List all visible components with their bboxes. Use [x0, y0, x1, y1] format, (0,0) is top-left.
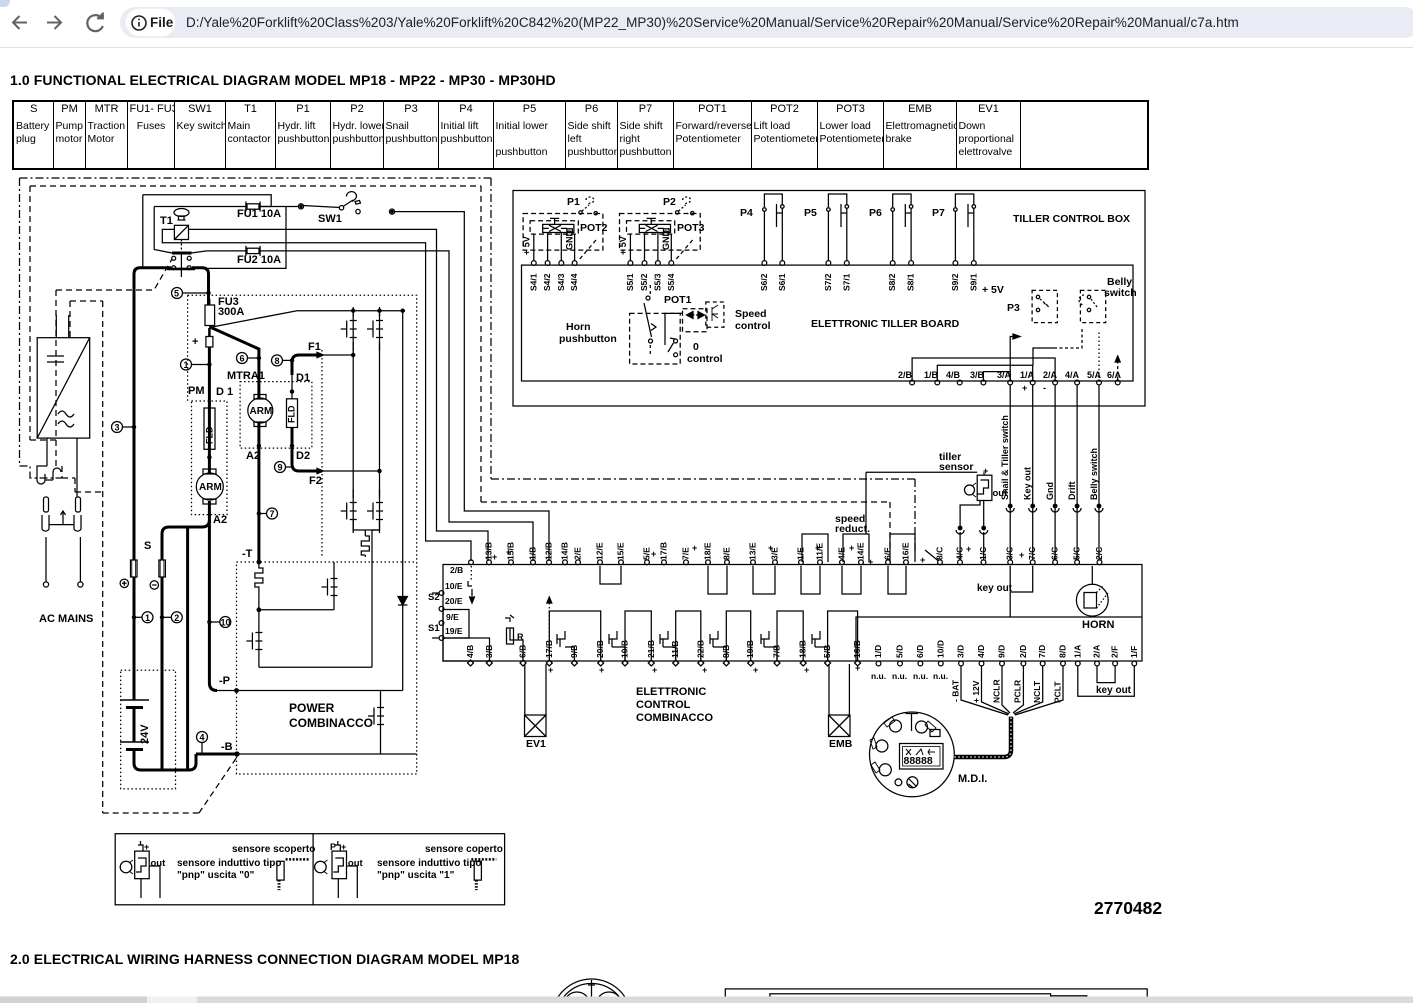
key out bracket bottom right	[1078, 666, 1135, 697]
tiller control box	[513, 191, 1145, 407]
svg-text:3/B: 3/B	[970, 370, 985, 380]
svg-text:ELETTRONIC TILLER BOARD: ELETTRONIC TILLER BOARD	[811, 318, 960, 330]
svg-text:P6: P6	[869, 207, 882, 219]
bottom partial diagram wheel	[552, 979, 632, 1003]
mosfet Q7	[368, 694, 384, 738]
svg-text:4/D: 4/D	[976, 645, 986, 658]
svg-text:7: 7	[270, 509, 275, 519]
svg-text:12/E: 12/E	[595, 542, 605, 560]
svg-text:PCLT: PCLT	[1053, 681, 1063, 703]
svg-text:P1: P1	[567, 196, 580, 208]
svg-text:D 1: D 1	[216, 386, 233, 398]
svg-text:+: +	[1022, 383, 1027, 393]
svg-text:switch: switch	[1104, 287, 1137, 299]
svg-text:+: +	[849, 543, 854, 553]
wire S2 S1 stubs	[432, 593, 439, 638]
svg-text:6/D: 6/D	[915, 645, 925, 658]
upper mosfet pair Q1 Q2	[341, 307, 357, 351]
svg-text:NCLR: NCLR	[992, 679, 1002, 703]
plus marks top row	[492, 543, 1024, 567]
svg-text:20/E: 20/E	[445, 596, 463, 606]
svg-text:FU1 10A: FU1 10A	[237, 208, 281, 220]
svg-text:-P: -P	[219, 675, 230, 687]
T1 aux dashed link	[56, 259, 172, 290]
svg-text:5/D: 5/D	[895, 645, 905, 658]
tiller board internal risers	[912, 358, 1055, 380]
solenoid valve EV1	[525, 715, 547, 737]
diode D3	[398, 597, 407, 606]
svg-text:S1: S1	[428, 623, 440, 634]
svg-text:M.D.I.: M.D.I.	[958, 773, 987, 785]
svg-text:COMBINACCO: COMBINACCO	[289, 716, 373, 730]
svg-text:S5/2: S5/2	[639, 273, 649, 291]
tiller board bottom terminals	[910, 380, 1120, 385]
wire F2 output	[290, 428, 381, 474]
battery plug fuse S+	[120, 560, 137, 700]
svg-text:10/D: 10/D	[935, 640, 945, 658]
P4 pushbutton	[740, 194, 787, 291]
svg-text:300A: 300A	[218, 306, 244, 318]
wire SW1 to board	[395, 212, 550, 561]
svg-text:9/D: 9/D	[997, 645, 1007, 658]
charger plug contacts	[37, 438, 83, 587]
net wires tiller to board	[1010, 385, 1099, 560]
svg-text:"pnp" uscita "1": "pnp" uscita "1"	[377, 870, 455, 881]
svg-text:ARM: ARM	[250, 406, 273, 417]
svg-text:S5/3: S5/3	[652, 273, 662, 291]
svg-text:n.u.: n.u.	[871, 671, 886, 681]
svg-text:+: +	[768, 543, 773, 553]
svg-text:+: +	[920, 555, 925, 565]
svg-text:+: +	[506, 547, 511, 557]
wire T1 top bus	[143, 195, 271, 207]
info icon in chip	[132, 16, 146, 30]
node circled 7	[257, 508, 277, 519]
P1 pushbutton group	[521, 196, 607, 291]
wire FU1 feed	[154, 207, 246, 254]
right sensor symbol	[315, 841, 364, 898]
wire FU3 to fet rail diagonal	[212, 311, 405, 327]
wire T1 coil left	[162, 229, 471, 561]
svg-text:sensore scoperto: sensore scoperto	[232, 844, 315, 855]
svg-text:POT1: POT1	[664, 294, 692, 306]
svg-text:17/B: 17/B	[659, 542, 669, 560]
6/A dashed with arrow	[1117, 358, 1119, 380]
wire to shunt	[353, 520, 379, 536]
svg-text:8/C: 8/C	[935, 547, 945, 560]
svg-text:+: +	[599, 665, 604, 675]
tiller board	[522, 265, 1134, 381]
battery 24V dotted box	[121, 670, 176, 789]
svg-text:2/A: 2/A	[1092, 645, 1102, 658]
svg-text:+: +	[983, 466, 988, 476]
svg-text:out: out	[348, 858, 364, 869]
svg-text:FU2 10A: FU2 10A	[237, 254, 281, 266]
svg-text:Gnd: Gnd	[1045, 482, 1055, 500]
wire T1 coil bypass	[143, 195, 286, 269]
svg-text:24V: 24V	[139, 724, 151, 744]
svg-text:sensor: sensor	[939, 461, 973, 473]
PM field winding FLD	[204, 408, 215, 459]
svg-text:4/E: 4/E	[837, 547, 847, 560]
svg-text:3/D: 3/D	[956, 645, 966, 658]
EV1 wires	[525, 664, 546, 715]
svg-text:SW1: SW1	[318, 213, 342, 225]
svg-text:1/F: 1/F	[1129, 646, 1139, 658]
wire -B rail	[196, 753, 237, 756]
svg-text:NCLT: NCLT	[1032, 680, 1042, 703]
fuse FU3	[205, 293, 215, 330]
fuse FU1	[246, 202, 260, 212]
MDI signal labels	[951, 679, 1063, 703]
svg-text:2/B: 2/B	[898, 370, 913, 380]
wire -P rail	[217, 690, 403, 692]
svg-text:2: 2	[174, 613, 179, 623]
shunt resistor lower	[255, 562, 263, 610]
svg-text:P5: P5	[804, 207, 817, 219]
browser toolbar	[0, 0, 1413, 48]
battery charger box	[37, 315, 89, 438]
EMB wires	[829, 664, 849, 715]
wire FU1 to SW1	[260, 206, 299, 208]
svg-text:4/B: 4/B	[946, 370, 961, 380]
POT1 group	[630, 294, 707, 364]
potentiometer POT2	[543, 224, 574, 232]
svg-text:sensore induttivo tipo: sensore induttivo tipo	[177, 858, 281, 869]
mosfet Q5	[322, 565, 338, 609]
svg-text:+: +	[804, 665, 809, 675]
inner partition box for D row	[856, 617, 1142, 661]
MTR dotted box	[240, 382, 312, 449]
svg-text:+ 5V: + 5V	[982, 284, 1004, 296]
MTR motor ARM	[248, 378, 273, 427]
svg-text:out: out	[151, 858, 167, 869]
svg-text:FLD: FLD	[287, 405, 297, 423]
svg-text:6/E: 6/E	[883, 547, 893, 560]
svg-text:8/E: 8/E	[722, 547, 732, 560]
svg-text:pushbutton: pushbutton	[559, 333, 617, 345]
svg-text:P4: P4	[740, 207, 753, 219]
svg-text:S7/2: S7/2	[823, 273, 833, 291]
svg-text:+: +	[966, 544, 971, 554]
wire F1 output	[292, 352, 353, 375]
board left side labels 10/E 20/E 9/E 19/E	[428, 581, 463, 636]
svg-text:8/D: 8/D	[1058, 645, 1068, 658]
svg-text:F1: F1	[308, 341, 321, 353]
svg-text:S4/4: S4/4	[569, 273, 579, 291]
svg-text:S7/1: S7/1	[842, 273, 852, 291]
svg-text:4/A: 4/A	[1065, 370, 1080, 380]
svg-text:FLD: FLD	[205, 426, 215, 444]
svg-text:8: 8	[275, 356, 280, 366]
svg-text:P3: P3	[1007, 302, 1020, 314]
wire dotted 5/A to belly switch	[1098, 330, 1100, 378]
wire -T dotted bus	[237, 561, 417, 563]
8/C wire diagonal	[925, 550, 939, 561]
node circled 1	[181, 359, 211, 370]
svg-text:ARM: ARM	[199, 482, 222, 493]
svg-text:+ 12V: + 12V	[971, 680, 981, 703]
P5 pushbutton	[804, 194, 852, 291]
forward arrow	[47, 16, 61, 29]
dotted line 17/B with arrow	[548, 603, 550, 660]
svg-text:-B: -B	[221, 741, 233, 753]
horn pushbutton contact	[559, 285, 653, 355]
svg-text:+: +	[692, 543, 697, 553]
MDI cable	[954, 717, 1011, 757]
node circled 5	[172, 288, 211, 299]
svg-text:D1: D1	[296, 372, 310, 384]
svg-text:n.u.: n.u.	[933, 671, 948, 681]
svg-text:GND: GND	[661, 230, 671, 251]
svg-text:14/E: 14/E	[856, 542, 866, 560]
svg-text:+ 5V: + 5V	[521, 236, 531, 255]
wire FU2 feed from contactor	[191, 251, 246, 253]
MDI instrument	[870, 712, 955, 797]
left sensor symbol	[120, 841, 166, 898]
svg-text:15/E: 15/E	[616, 542, 626, 560]
fuse FU2	[246, 246, 260, 256]
wire thick right PM feed	[192, 268, 209, 293]
wire Q5 source bus	[259, 609, 334, 611]
svg-text:Belly switch: Belly switch	[1089, 448, 1099, 500]
belly switch contact	[1079, 276, 1137, 323]
svg-text:1/E: 1/E	[796, 547, 806, 560]
node circled 9	[275, 462, 293, 473]
P7 pushbutton	[932, 194, 978, 291]
svg-text:-T: -T	[242, 548, 253, 560]
dotted power module frame	[188, 295, 417, 774]
svg-text:9/E: 9/E	[446, 612, 459, 622]
svg-text:1/B: 1/B	[528, 547, 538, 560]
svg-text:ELETTRONIC: ELETTRONIC	[636, 686, 706, 698]
svg-text:4: 4	[200, 733, 205, 743]
svg-text:10/E: 10/E	[445, 581, 463, 591]
svg-text:n.u.: n.u.	[913, 671, 928, 681]
svg-text:TILLER CONTROL BOX: TILLER CONTROL BOX	[1013, 213, 1130, 225]
svg-text:1/B: 1/B	[924, 370, 939, 380]
svg-text:S9/1: S9/1	[968, 273, 978, 291]
inner dashed frame	[30, 186, 890, 813]
svg-text:+: +	[192, 336, 198, 348]
svg-text:key out: key out	[977, 583, 1013, 594]
svg-text:POWER: POWER	[289, 701, 335, 715]
board left inner boxes	[443, 610, 469, 639]
svg-text:POT3: POT3	[677, 222, 705, 234]
svg-text:"pnp" uscita "0": "pnp" uscita "0"	[177, 870, 255, 881]
svg-text:4/B: 4/B	[465, 645, 475, 658]
svg-text:88888: 88888	[904, 755, 933, 767]
svg-text:2770482: 2770482	[1094, 898, 1162, 918]
svg-text:S8/1: S8/1	[906, 273, 916, 291]
svg-text:Drift: Drift	[1067, 482, 1077, 501]
svg-text:1: 1	[145, 613, 150, 623]
svg-text:+: +	[492, 552, 497, 562]
key switch SW1	[298, 192, 394, 225]
svg-text:S6/1: S6/1	[777, 273, 787, 291]
wire thick left battery feed	[134, 268, 171, 560]
svg-text:1/C: 1/C	[978, 547, 988, 560]
svg-text:S: S	[144, 540, 151, 552]
node circled 10	[208, 617, 231, 628]
svg-text:9: 9	[278, 463, 283, 473]
MTR field winding FLD	[287, 360, 298, 427]
svg-text:EV1: EV1	[526, 738, 546, 750]
svg-text:F2: F2	[309, 475, 322, 487]
svg-text:3/B: 3/B	[484, 645, 494, 658]
horn wire	[1091, 566, 1093, 585]
svg-text:Horn: Horn	[566, 321, 591, 333]
MDI fan-out wires	[961, 666, 1063, 716]
dotted line MTR sense	[321, 350, 323, 557]
shunt resistor	[361, 536, 369, 557]
svg-text:1/A: 1/A	[1072, 645, 1082, 658]
svg-text:+: +	[651, 549, 656, 559]
svg-text:GND: GND	[564, 230, 574, 251]
svg-text:CONTROL: CONTROL	[636, 699, 691, 711]
svg-text:1: 1	[184, 360, 189, 370]
wire fet rail taps	[353, 311, 403, 691]
wire FU3 to MTR thick diagonal	[210, 327, 259, 378]
svg-text:13/E: 13/E	[748, 542, 758, 560]
contactor T1 coil	[174, 209, 189, 253]
svg-text:key out: key out	[1096, 685, 1132, 696]
svg-text:+: +	[815, 543, 820, 553]
inductor L mark near 10/E	[468, 581, 472, 596]
svg-text:S2: S2	[428, 592, 440, 603]
svg-text:5/E: 5/E	[642, 547, 652, 560]
plus marks bottom row	[548, 663, 860, 675]
svg-text:+: +	[341, 842, 346, 852]
control board ELETTRONIC CONTROL COMBINACCO	[443, 565, 1142, 662]
wire PM branch plus fuse	[192, 328, 213, 473]
svg-text:10: 10	[221, 618, 231, 628]
svg-text:2/E: 2/E	[573, 547, 583, 560]
svg-text:P2: P2	[663, 196, 676, 208]
board bottom terminals	[468, 660, 1137, 666]
svg-text:PCLR: PCLR	[1012, 680, 1022, 703]
potentiometer POT3	[639, 224, 670, 232]
node -T junction	[257, 560, 261, 564]
tiller sensor	[866, 451, 1008, 560]
svg-text:6: 6	[240, 354, 245, 364]
board left terminals S2 S1	[439, 591, 444, 596]
svg-text:S9/2: S9/2	[950, 273, 960, 291]
svg-text:A2: A2	[213, 514, 227, 526]
wire PM return	[162, 520, 209, 560]
board top terminal labels	[450, 542, 1104, 575]
sensore legend box	[115, 834, 504, 905]
svg-text:n.u.: n.u.	[892, 671, 907, 681]
svg-text:5/A: 5/A	[1087, 370, 1102, 380]
svg-text:6/A: 6/A	[1107, 370, 1122, 380]
net labels	[1000, 415, 1099, 500]
node circled 1 battery	[132, 612, 153, 623]
svg-text:+: +	[855, 663, 860, 673]
legend table	[12, 100, 1149, 170]
svg-text:POT2: POT2	[580, 222, 608, 234]
key out bracket inside board	[1010, 566, 1032, 617]
svg-text:+: +	[652, 665, 657, 675]
bottom scrollbar band	[0, 997, 1413, 1003]
svg-text:12/B: 12/B	[544, 542, 554, 560]
svg-text:16/E: 16/E	[901, 542, 911, 560]
svg-text:S8/2: S8/2	[887, 273, 897, 291]
tiller board bottom labels	[898, 370, 1122, 380]
svg-text:S4/2: S4/2	[542, 273, 552, 291]
right target icon	[474, 861, 481, 880]
svg-text:P7: P7	[932, 207, 945, 219]
reload icon	[87, 15, 102, 31]
svg-text:S4/3: S4/3	[556, 273, 566, 291]
page heading 2	[10, 951, 519, 967]
node circled 3	[112, 422, 136, 433]
n.u. labels	[871, 671, 948, 681]
PM dotted box	[192, 401, 228, 515]
mosfet Q6	[246, 619, 262, 663]
svg-text:2/F: 2/F	[1110, 646, 1120, 658]
bottom partial diagram connector box	[725, 989, 1147, 1003]
node circled 8	[272, 355, 294, 366]
board bottom terminal labels	[465, 640, 1139, 658]
0 control contact	[668, 338, 723, 365]
contactor T1 main contacts	[167, 253, 195, 277]
svg-text:Speed: Speed	[735, 308, 767, 320]
horn	[1076, 584, 1108, 616]
svg-text:P: P	[330, 842, 336, 852]
svg-text:R: R	[517, 632, 524, 642]
svg-text:S5/1: S5/1	[625, 273, 635, 291]
wire PM column to -P rail	[209, 501, 217, 691]
svg-text:0: 0	[693, 341, 699, 353]
svg-text:control: control	[687, 353, 723, 365]
svg-text:+: +	[144, 842, 149, 852]
wire Q6 source to F2 column	[259, 530, 380, 667]
battery cells	[120, 700, 196, 770]
svg-text:D2: D2	[296, 450, 310, 462]
svg-text:sensore coperto: sensore coperto	[425, 844, 503, 855]
P2 pushbutton group	[618, 196, 705, 291]
PM motor ARM	[196, 469, 223, 504]
svg-text:19/E: 19/E	[445, 626, 463, 636]
wire half-bridge verticals	[353, 342, 379, 498]
svg-text:+ 5V: + 5V	[618, 236, 628, 255]
svg-text:- BAT: - BAT	[951, 679, 961, 702]
outer dash-dot frame	[20, 178, 916, 552]
P3 snail contact	[1007, 290, 1057, 322]
svg-text:2/D: 2/D	[1018, 645, 1028, 658]
left target icon	[277, 861, 284, 880]
svg-text:Key out: Key out	[1023, 467, 1033, 500]
svg-text:-: -	[1043, 383, 1046, 393]
svg-text:+: +	[753, 665, 758, 675]
wire T1 coil right	[189, 229, 489, 561]
svg-text:sensore induttivo tipo: sensore induttivo tipo	[377, 858, 481, 869]
svg-text:EMB: EMB	[829, 738, 853, 750]
svg-text:2/B: 2/B	[450, 565, 463, 575]
speed reduct boxes	[802, 513, 915, 562]
wire FU2 to board	[260, 251, 533, 561]
svg-text:+: +	[702, 665, 707, 675]
resistor R near 6/B	[505, 615, 524, 661]
svg-text:1/D: 1/D	[873, 645, 883, 658]
svg-text:S4/1: S4/1	[528, 273, 538, 291]
interior transistor glyphs	[557, 631, 828, 661]
page heading 1	[10, 72, 556, 88]
svg-text:T1: T1	[160, 215, 173, 227]
battery plug fuse S-	[150, 560, 165, 770]
brake EMB	[829, 715, 851, 737]
